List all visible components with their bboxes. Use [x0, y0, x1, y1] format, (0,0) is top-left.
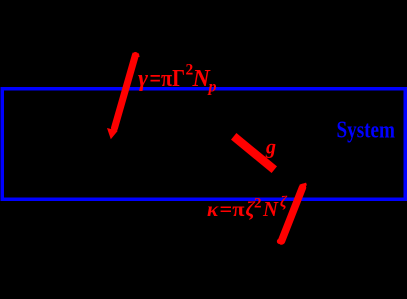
- gamma arrow (pump into system): [107, 52, 140, 139]
- svg-text:γ: γ: [138, 66, 148, 92]
- svg-text:p: p: [207, 79, 217, 96]
- kappa bar (cavity decay out): [278, 184, 307, 243]
- system box: [2, 89, 405, 200]
- svg-text:=πΓ: =πΓ: [150, 66, 186, 92]
- g coupling bar: [237, 139, 271, 167]
- svg-text:System: System: [337, 117, 396, 144]
- svg-text:=π: =π: [220, 197, 246, 221]
- label gamma = pi Gamma^2 N_p: [138, 62, 217, 96]
- svg-text:2: 2: [254, 196, 262, 212]
- svg-text:N: N: [262, 197, 279, 221]
- svg-text:ζ: ζ: [280, 194, 288, 211]
- label kappa = pi zeta^2 N^zeta: [207, 194, 288, 221]
- svg-text:g: g: [265, 137, 276, 159]
- svg-text:κ: κ: [207, 197, 219, 221]
